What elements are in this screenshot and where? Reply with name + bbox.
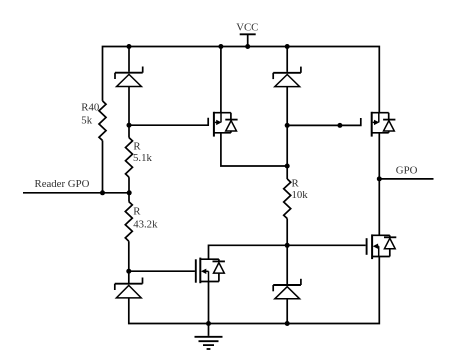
wire Z2 anode down mid column to R 10k bbox=[286, 87, 288, 179]
wire Q2 source to GPO node to Q4 drain bbox=[378, 133, 380, 236]
node bottom rail / Z4 bbox=[285, 321, 290, 326]
wire R 43.2k bottom to Q3 gate node bbox=[128, 241, 130, 271]
wire VCC top rail with left and right drops bbox=[103, 47, 380, 113]
node Z1 anode / Q1 gate bbox=[127, 123, 132, 128]
wire Q3 source to bottom rail bbox=[208, 282, 210, 324]
wire R 5.1k bottom to Reader GPO rail bbox=[128, 177, 130, 193]
node mid column / Q1 source bbox=[285, 164, 290, 169]
wire GPO lead bbox=[379, 178, 433, 180]
node top rail / Z1 bbox=[127, 44, 132, 49]
zener diode D3 bbox=[115, 278, 143, 298]
resistor R 43.2k bbox=[125, 202, 132, 242]
svg-text:10k: 10k bbox=[292, 189, 309, 201]
wire gate-row: Q3 drain hook to Q4 gate bbox=[209, 245, 366, 259]
svg-text:R: R bbox=[133, 140, 141, 152]
wire Z1 anode down to gate node bbox=[128, 87, 130, 126]
wire Q2 gate stub from mid column with hook bbox=[287, 118, 361, 125]
ground bbox=[195, 324, 223, 350]
wire Z3 anode, bottom rail, and Q4 source drop bbox=[129, 257, 379, 324]
node top rail / Z2 bbox=[285, 44, 290, 49]
zener diode D4 bbox=[273, 279, 301, 299]
resistor R40 5k bbox=[99, 101, 106, 141]
node Reader GPO / R40 bbox=[100, 190, 105, 195]
node R 43.2k / Q3 gate / Z3 bbox=[126, 269, 131, 274]
wire mid column down to Z4 bbox=[286, 245, 288, 284]
wire R 43.2k top from Reader GPO rail bbox=[128, 193, 130, 202]
wire R40 bottom to Reader GPO rail bbox=[102, 141, 104, 193]
wire Q3 gate wire bbox=[129, 270, 195, 272]
wire R 10k bottom to gate-row node bbox=[286, 219, 288, 246]
transistor Q3 (NMOS bottom-left) bbox=[196, 258, 225, 284]
wire R 5.1k top from gate node bbox=[128, 125, 130, 138]
node gate-row / R 10k bbox=[285, 243, 290, 248]
node GPO bbox=[377, 176, 382, 181]
VCC power symbol bbox=[240, 34, 256, 46]
svg-text:Reader GPO: Reader GPO bbox=[35, 178, 90, 190]
svg-text:R: R bbox=[133, 206, 141, 218]
wire Z4 anode to bottom rail bbox=[286, 299, 288, 324]
svg-text:R40: R40 bbox=[81, 102, 99, 114]
transistor Q1 (PMOS top-left) bbox=[214, 112, 238, 137]
resistor R 10k bbox=[284, 179, 291, 219]
node Reader GPO / R 5.1k R 43.2k bbox=[127, 190, 132, 195]
wire Z1 cathode to top rail bbox=[128, 47, 130, 72]
svg-text:R: R bbox=[292, 178, 300, 190]
svg-text:GPO: GPO bbox=[396, 164, 418, 176]
svg-text:5k: 5k bbox=[81, 114, 92, 126]
wire Z2 cathode to top rail bbox=[286, 47, 288, 72]
node bottom rail / Q3 source / ground bbox=[206, 321, 211, 326]
transistor Q4 (NMOS bottom-right) bbox=[367, 234, 397, 259]
transistor Q2 (PMOS top-right) bbox=[372, 112, 396, 137]
wire Q1 gate wire with hook bbox=[129, 118, 208, 125]
node top rail / Q1 drain bbox=[218, 44, 223, 49]
wire Q1 source down and right to mid column bbox=[221, 133, 287, 166]
node Q2 gate stub mid dot bbox=[337, 123, 342, 128]
svg-text:5.1k: 5.1k bbox=[133, 152, 152, 164]
zener diode D2 bbox=[273, 67, 301, 87]
wire Reader GPO rail bbox=[23, 192, 129, 194]
svg-text:43.2k: 43.2k bbox=[133, 219, 158, 231]
wire Q1 drain to top rail bbox=[220, 47, 222, 113]
svg-text:VCC: VCC bbox=[236, 22, 258, 34]
zener diode D1 bbox=[115, 67, 143, 87]
node top rail / VCC bbox=[245, 44, 250, 49]
node mid column / Q2 gate stub bbox=[285, 123, 290, 128]
wire Z3 cathode from Q3 gate node bbox=[128, 271, 130, 283]
resistor R 5.1k bbox=[126, 138, 133, 178]
